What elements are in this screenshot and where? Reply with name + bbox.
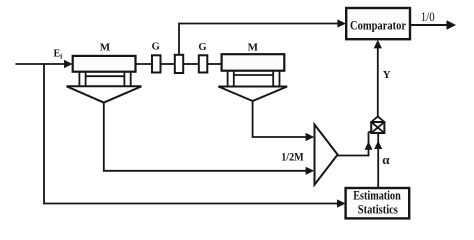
M2 tap legs — [228, 70, 280, 87]
input wire Ei — [16, 60, 73, 68]
M1 tap legs — [79, 71, 130, 86]
gap block G1 — [152, 55, 161, 72]
wire branch down to bottom bus — [43, 63, 346, 207]
svg-text:G: G — [198, 42, 206, 53]
wire M1 to G1 — [136, 63, 153, 65]
svg-text:1/0: 1/0 — [421, 10, 435, 24]
svg-text:G: G — [152, 42, 160, 53]
wire tap block to comparator — [178, 19, 346, 54]
center tap block — [175, 55, 183, 73]
multiplier — [371, 116, 384, 133]
label Estimation Statistics — [353, 189, 401, 217]
wire tap block to G2 — [183, 63, 199, 65]
wire Y: multiplier to comparator — [374, 40, 382, 117]
svg-text:Comparator: Comparator — [350, 19, 406, 33]
svg-text:α: α — [382, 152, 390, 167]
amplifier triangle 1/2M — [315, 125, 338, 185]
wire G1 to tap block — [161, 63, 175, 65]
delay line M2 box — [222, 54, 285, 70]
svg-text:Statistics: Statistics — [358, 203, 398, 217]
svg-text:M: M — [248, 42, 259, 54]
wire G2 to M2 — [207, 63, 221, 65]
delay line M1 box — [73, 56, 136, 72]
wire M1 funnel to amp lower input — [103, 102, 314, 175]
M1 summing funnel — [67, 86, 142, 102]
svg-text:Ei: Ei — [54, 49, 63, 61]
svg-text:1/2M: 1/2M — [281, 151, 304, 163]
wire alpha: estimation box to multiplier — [374, 133, 382, 188]
output wire 1/0 — [410, 20, 457, 30]
wire M2 funnel to amp upper input — [252, 100, 315, 141]
svg-text:M: M — [100, 42, 111, 54]
comparator box — [346, 8, 410, 39]
estimation statistics box — [346, 188, 410, 218]
svg-text:Estimation: Estimation — [353, 189, 401, 203]
svg-text:Y: Y — [383, 69, 391, 81]
wire amp output to multiplier — [337, 132, 373, 157]
gap block G2 — [199, 55, 208, 72]
M2 summing funnel — [218, 87, 287, 102]
